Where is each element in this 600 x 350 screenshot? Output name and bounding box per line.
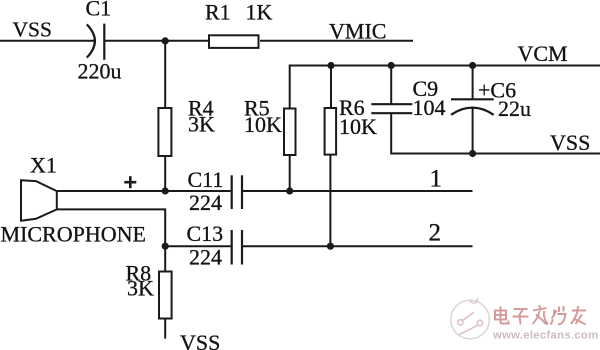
value 22u bbox=[498, 96, 531, 121]
svg-text:VCM: VCM bbox=[518, 41, 568, 66]
resistor R4 bbox=[158, 108, 171, 156]
value 3K bbox=[188, 112, 215, 137]
node VSS input label bbox=[13, 18, 52, 42]
node VSS bottom label bbox=[180, 330, 220, 350]
svg-text:MICROPHONE: MICROPHONE bbox=[1, 222, 146, 247]
node junction R6 VCM bbox=[327, 62, 334, 69]
svg-text:1: 1 bbox=[430, 166, 443, 193]
label R6 bbox=[339, 95, 365, 120]
value 224 bbox=[189, 190, 222, 215]
wire node A to R4 bbox=[164, 41, 166, 108]
svg-text:3K: 3K bbox=[127, 276, 154, 301]
value 104 bbox=[413, 95, 446, 120]
wire VCM to R6 bbox=[330, 66, 332, 109]
svg-text:220u: 220u bbox=[78, 58, 122, 83]
wire mic bottom to line 2 bbox=[57, 209, 165, 246]
svg-text:VSS: VSS bbox=[550, 130, 590, 155]
wire VCM to C9 bbox=[390, 66, 392, 105]
node VSS right label bbox=[550, 130, 590, 155]
label C11 bbox=[188, 167, 224, 192]
value 1K bbox=[246, 0, 273, 25]
label R8 bbox=[126, 260, 152, 285]
wire VCM to C6 bbox=[472, 66, 474, 100]
wire C6 to VSS rail bbox=[472, 108, 474, 154]
label X1 bbox=[30, 153, 57, 178]
node VMIC label bbox=[329, 18, 386, 43]
node junction C9 VCM bbox=[388, 62, 395, 69]
node junction R4 line1 bbox=[162, 187, 169, 194]
resistor R5 bbox=[284, 109, 296, 156]
wire line 1 mic to C11 bbox=[57, 190, 231, 192]
resistor R8 bbox=[159, 272, 172, 319]
label R5 bbox=[244, 96, 270, 121]
microphone X1 bbox=[21, 180, 57, 221]
svg-text:www.elecfans.com: www.elecfans.com bbox=[492, 330, 598, 342]
watermark url bbox=[492, 330, 598, 342]
svg-text:10K: 10K bbox=[339, 114, 377, 139]
svg-text:C1: C1 bbox=[86, 0, 112, 20]
svg-text:VSS: VSS bbox=[180, 330, 220, 350]
node junction C6 VCM bbox=[469, 62, 476, 69]
svg-text:2: 2 bbox=[429, 220, 442, 247]
wire R8 to VSS bbox=[164, 319, 166, 339]
capacitor C11 bbox=[232, 175, 242, 209]
svg-text:VSS: VSS bbox=[13, 18, 52, 42]
svg-text:224: 224 bbox=[189, 190, 222, 215]
wire C1 to node A bbox=[104, 40, 208, 42]
wire VCM rail bbox=[290, 66, 600, 109]
svg-text:R1: R1 bbox=[205, 0, 231, 25]
capacitor C9 bbox=[371, 104, 412, 113]
node junction line2 bbox=[162, 243, 169, 250]
label C1 bbox=[86, 0, 112, 20]
node junction R5 line1 bbox=[286, 187, 293, 194]
svg-text:224: 224 bbox=[189, 244, 222, 269]
svg-text:104: 104 bbox=[413, 95, 446, 120]
label R1 bbox=[205, 0, 231, 25]
svg-text:VMIC: VMIC bbox=[329, 18, 386, 43]
svg-text:X1: X1 bbox=[30, 153, 57, 178]
wire R6 to line 2 bbox=[329, 155, 331, 247]
value 220u bbox=[78, 58, 122, 83]
capacitor C6 polarized bbox=[451, 99, 494, 115]
wire R1 to VMIC bbox=[260, 40, 413, 42]
node VCM label bbox=[518, 41, 568, 66]
label plus bbox=[124, 176, 136, 188]
value 3K bbox=[127, 276, 154, 301]
wire line 1 C11 to end bbox=[243, 190, 473, 192]
resistor R6 bbox=[325, 108, 337, 155]
label 2 bbox=[429, 220, 442, 247]
node junction R6 line2 bbox=[327, 243, 334, 250]
wire line 2 C13 to end bbox=[243, 245, 473, 247]
label R4 bbox=[188, 95, 214, 120]
wire R5 to line 1 bbox=[289, 155, 291, 191]
label C13 bbox=[187, 221, 224, 246]
label +C6 bbox=[478, 78, 516, 103]
watermark logo circle bbox=[451, 298, 490, 339]
capacitor C13 bbox=[232, 230, 242, 265]
svg-text:C13: C13 bbox=[187, 221, 224, 246]
capacitor C1 bbox=[87, 24, 105, 60]
wire R4 to line 1 bbox=[164, 156, 166, 191]
node junction C6 VSS rail bbox=[469, 150, 476, 157]
node A junction bbox=[162, 37, 169, 44]
svg-text:3K: 3K bbox=[188, 112, 215, 137]
value 224 bbox=[189, 244, 222, 269]
watermark text elecfans (stylized strokes) bbox=[495, 305, 586, 325]
label MICROPHONE bbox=[1, 222, 146, 247]
value 10K bbox=[339, 114, 377, 139]
wire line 2 to C13 bbox=[165, 245, 230, 247]
svg-text:C11: C11 bbox=[188, 167, 224, 192]
value 10K bbox=[244, 112, 282, 137]
wire C9 to VSS rail bbox=[391, 113, 600, 153]
label 1 bbox=[430, 166, 443, 193]
resistor R1 bbox=[209, 35, 259, 48]
svg-text:10K: 10K bbox=[244, 112, 282, 137]
label C9 bbox=[413, 76, 439, 101]
wire line2 to R8 bbox=[164, 246, 166, 271]
wire VSS input to C1 bbox=[0, 40, 95, 42]
svg-text:22u: 22u bbox=[498, 96, 531, 121]
svg-text:1K: 1K bbox=[246, 0, 273, 25]
